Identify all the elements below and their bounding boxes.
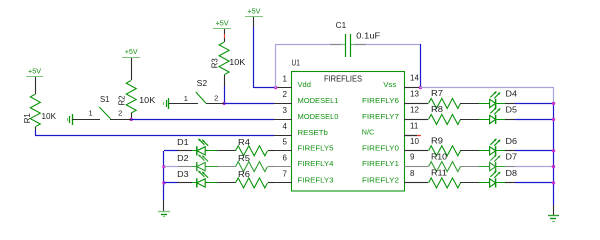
- svg-text:FIREFLY5: FIREFLY5: [298, 143, 334, 152]
- svg-text:FIREFLY3: FIREFLY3: [298, 175, 334, 184]
- svg-text:Vss: Vss: [383, 80, 396, 89]
- svg-text:D1: D1: [177, 138, 189, 147]
- svg-text:FIREFLY7: FIREFLY7: [362, 112, 399, 121]
- svg-text:R8: R8: [431, 105, 444, 114]
- svg-text:6: 6: [283, 153, 288, 162]
- svg-text:MODESEL0: MODESEL0: [298, 112, 339, 121]
- svg-text:14: 14: [410, 74, 419, 83]
- svg-text:FIREFLY4: FIREFLY4: [298, 159, 334, 168]
- svg-text:D6: D6: [506, 137, 518, 146]
- svg-text:2: 2: [214, 94, 218, 103]
- svg-text:R10: R10: [431, 152, 448, 161]
- svg-text:FIREFLY0: FIREFLY0: [362, 143, 399, 152]
- svg-text:MODESEL1: MODESEL1: [298, 96, 339, 105]
- svg-text:2: 2: [118, 108, 122, 117]
- svg-text:D3: D3: [177, 170, 189, 179]
- svg-text:U1: U1: [292, 59, 301, 68]
- svg-text:1: 1: [283, 74, 288, 83]
- svg-text:S2: S2: [197, 79, 208, 88]
- svg-text:12: 12: [410, 105, 419, 114]
- svg-text:N/C: N/C: [362, 128, 375, 137]
- svg-text:D8: D8: [506, 169, 518, 178]
- svg-text:10K: 10K: [139, 96, 156, 105]
- svg-text:5: 5: [283, 138, 288, 147]
- svg-text:11: 11: [410, 121, 419, 130]
- svg-text:R5: R5: [238, 154, 251, 163]
- svg-text:R9: R9: [431, 137, 444, 146]
- svg-text:4: 4: [283, 122, 288, 131]
- svg-text:FIREFLY6: FIREFLY6: [362, 96, 399, 105]
- svg-text:D4: D4: [506, 89, 518, 98]
- svg-text:7: 7: [283, 170, 288, 179]
- svg-text:RESETb: RESETb: [298, 128, 328, 137]
- svg-text:FIREFLY2: FIREFLY2: [362, 175, 399, 184]
- svg-text:10K: 10K: [229, 58, 246, 67]
- svg-text:D7: D7: [506, 153, 518, 162]
- svg-text:Vdd: Vdd: [298, 80, 311, 89]
- svg-text:FIREFLIES: FIREFLIES: [324, 74, 362, 83]
- svg-text:1: 1: [184, 94, 188, 103]
- svg-text:2: 2: [283, 90, 288, 99]
- svg-text:R4: R4: [238, 138, 251, 147]
- svg-text:+5V: +5V: [125, 47, 138, 56]
- svg-text:R7: R7: [431, 89, 444, 98]
- svg-text:10K: 10K: [42, 112, 57, 121]
- svg-text:FIREFLY1: FIREFLY1: [362, 159, 399, 168]
- svg-text:S1: S1: [100, 95, 110, 104]
- svg-text:+5V: +5V: [247, 7, 260, 16]
- svg-text:D2: D2: [177, 154, 189, 163]
- svg-text:R11: R11: [431, 169, 448, 178]
- svg-text:R2: R2: [118, 95, 127, 106]
- svg-text:R6: R6: [238, 170, 251, 179]
- svg-text:R1: R1: [23, 113, 32, 124]
- svg-text:9: 9: [410, 153, 415, 162]
- svg-text:R3: R3: [211, 58, 220, 69]
- svg-text:13: 13: [410, 89, 419, 98]
- svg-text:10: 10: [410, 137, 419, 146]
- svg-text:8: 8: [410, 169, 415, 178]
- svg-text:+5V: +5V: [28, 67, 41, 76]
- svg-text:1: 1: [89, 108, 93, 117]
- svg-text:+5V: +5V: [216, 19, 229, 28]
- svg-text:3: 3: [283, 106, 288, 115]
- svg-text:D5: D5: [506, 105, 518, 114]
- svg-text:0.1uF: 0.1uF: [356, 32, 380, 41]
- svg-text:C1: C1: [336, 21, 347, 30]
